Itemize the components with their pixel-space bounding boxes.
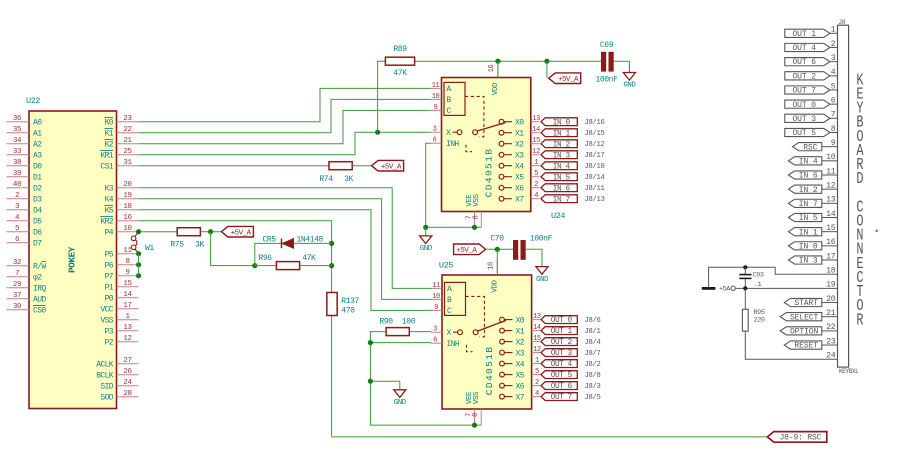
U22 pin 11 (P5)	[105, 247, 139, 259]
U25 pin 2 (X6)	[500, 379, 541, 391]
junction R75/+5V_A	[208, 229, 213, 234]
wire U24 VEE drop	[474, 226, 476, 228]
svg-text:J8/3: J8/3	[585, 383, 601, 391]
svg-text:P3: P3	[105, 328, 114, 337]
svg-text:K1: K1	[105, 130, 114, 139]
svg-text:470: 470	[341, 306, 355, 315]
svg-text:16: 16	[487, 262, 495, 270]
svg-text:RESET: RESET	[794, 342, 818, 351]
U24 pin 9 (C)	[431, 104, 442, 112]
svg-text:SELECT: SELECT	[790, 313, 819, 322]
connector J8 pin 20 (START)	[784, 295, 837, 308]
svg-text:GND: GND	[536, 276, 549, 284]
svg-text:J8-9: RSC: J8-9: RSC	[780, 434, 822, 443]
svg-text:VDD: VDD	[492, 82, 500, 95]
svg-text:J8/17: J8/17	[585, 152, 605, 160]
net label flag J8-9: RSC	[767, 432, 827, 443]
svg-text:3K: 3K	[195, 240, 204, 249]
connector J8 pin 5 (OUT 7)	[785, 82, 838, 95]
svg-text:R89: R89	[393, 45, 407, 54]
svg-text:IN 0: IN 0	[799, 242, 818, 251]
svg-text:AUD: AUD	[33, 296, 46, 305]
wire net K1 from U22.K1 to U24.B	[139, 99, 431, 132]
svg-text:31: 31	[123, 159, 132, 167]
svg-text:1: 1	[535, 357, 539, 365]
U24 pin 13 (X0)	[499, 115, 540, 127]
U22 pin 36 (A0)	[7, 115, 43, 127]
svg-text:6: 6	[433, 137, 437, 145]
connector J8 pin 24	[826, 352, 837, 361]
U25 pin 16 (VDD)	[487, 259, 499, 293]
svg-text:KR1: KR1	[100, 152, 113, 161]
svg-text:C93: C93	[753, 271, 764, 279]
svg-text:X0: X0	[515, 119, 524, 128]
U22 pin 20 (K3)	[105, 181, 139, 193]
wire node to R96	[255, 265, 277, 267]
wire net K3 from U22.K3 to U25.A	[139, 188, 432, 289]
net label flag IN 6 at U24 X6	[541, 184, 577, 194]
connector J8 pin 8 (OUT 5)	[785, 125, 838, 138]
svg-text:GND: GND	[623, 82, 636, 90]
svg-text:J8/12: J8/12	[585, 141, 605, 149]
svg-text:K0: K0	[105, 119, 114, 128]
svg-text:D6: D6	[33, 229, 42, 238]
svg-text:R/W: R/W	[33, 263, 46, 272]
svg-text:J8/4: J8/4	[585, 339, 601, 347]
U22 pin 17 (VCC)	[100, 302, 138, 314]
wire node up to CR5	[255, 243, 282, 265]
wire R75 to +5V_A junction	[200, 231, 221, 233]
svg-text:X6: X6	[516, 382, 525, 391]
net label flag OUT 0 at U25 X0	[541, 316, 577, 326]
svg-text:9: 9	[434, 104, 438, 112]
svg-text:IN 5: IN 5	[799, 214, 818, 223]
svg-text:CD4051B: CD4051B	[484, 148, 495, 198]
svg-text:VSS: VSS	[473, 391, 481, 404]
junction KR2/CR5	[329, 241, 334, 246]
svg-text:X1: X1	[516, 327, 525, 336]
junction node CR5-anode/R96	[252, 263, 257, 268]
svg-text:X2: X2	[516, 338, 525, 347]
U24 internal dashed select lines	[465, 96, 484, 151]
wire U25 INH stub	[370, 342, 431, 344]
connector J8 pin 12 (IN 2)	[788, 181, 837, 194]
U22 pin 5 (D6)	[7, 225, 43, 237]
wire P4 pin to R75	[139, 231, 178, 233]
svg-text:+5A: +5A	[719, 286, 731, 294]
U22 pin 34 (A2)	[7, 137, 43, 149]
U24 pin 14 (X1)	[499, 126, 540, 138]
wire R96 to KR2	[300, 265, 332, 267]
net label flag OUT 5 at U25 X5	[541, 371, 577, 381]
U22 pin 28 (SOD)	[100, 390, 138, 402]
svg-text:C70: C70	[490, 235, 504, 244]
svg-text:X7: X7	[516, 393, 525, 402]
U22 pin 29 (IRQ)	[7, 281, 47, 293]
svg-text:16: 16	[123, 214, 132, 222]
capacitor C70 100nF	[490, 235, 552, 260]
U22 pin 19 (K4)	[105, 192, 139, 204]
U25 pin 7 (VEE)	[466, 391, 475, 425]
svg-text:OUT 6: OUT 6	[792, 58, 816, 67]
svg-text:X4: X4	[515, 163, 524, 172]
net name text J8/11	[585, 185, 605, 193]
U22 pin 23 (K0)	[105, 115, 139, 127]
svg-text:CS1: CS1	[100, 163, 113, 172]
U22 pin 7 (PHI2)	[7, 270, 43, 282]
svg-text:2: 2	[15, 192, 19, 200]
svg-text:GND: GND	[420, 245, 433, 253]
U24 pin 1 (X4)	[499, 159, 539, 171]
svg-text:IN 2: IN 2	[799, 186, 818, 195]
svg-text:J8/10: J8/10	[585, 163, 605, 171]
power stub +5A	[719, 286, 735, 294]
svg-text:VSS: VSS	[473, 193, 481, 206]
svg-text:IN 7: IN 7	[799, 200, 818, 209]
svg-text:W1: W1	[145, 244, 154, 253]
svg-text:P0: P0	[105, 295, 114, 304]
junction P4/W1	[136, 229, 141, 234]
junction U24 VDD	[495, 59, 500, 64]
resistor R137 470	[327, 293, 360, 316]
net label flag IN 2 at U24 X2	[541, 140, 577, 150]
net name text J8/10	[585, 163, 605, 171]
svg-text:36: 36	[13, 115, 22, 123]
connector J8 pin 3 (OUT 6)	[785, 54, 838, 67]
svg-text:26: 26	[123, 368, 132, 376]
connector J8 pin 14 (IN 5)	[788, 210, 837, 223]
svg-text:J8/2: J8/2	[585, 361, 601, 369]
wire R74 to +5V_A	[352, 165, 371, 167]
U25 pin 8 (VSS)	[472, 391, 481, 425]
svg-text:J8/8: J8/8	[585, 372, 601, 380]
svg-text:2: 2	[534, 181, 538, 189]
connector J8 pin 4 (OUT 2)	[785, 68, 838, 81]
U22 pin 33 (A3)	[7, 148, 43, 160]
svg-text:100nF: 100nF	[530, 235, 553, 244]
net name text J8/15	[585, 130, 605, 138]
junction +5V_A flag tap	[544, 59, 549, 64]
svg-text:START: START	[794, 299, 818, 308]
resistor R89 47K	[385, 45, 414, 78]
svg-text:R74: R74	[319, 175, 333, 184]
svg-text:1: 1	[534, 159, 538, 167]
net name text J8/13	[585, 196, 605, 204]
svg-text:K4: K4	[105, 196, 114, 205]
svg-text:CR5: CR5	[263, 235, 277, 244]
svg-text:U22: U22	[26, 96, 40, 106]
U25 pin 14 (X1)	[500, 324, 541, 336]
connector J8 pin 18	[826, 266, 837, 275]
svg-text:J8: J8	[838, 19, 846, 26]
IC U22 vertical name POKEY	[67, 246, 78, 273]
svg-text:J8/16: J8/16	[585, 119, 605, 127]
junction R90/INH	[368, 340, 373, 345]
U25 pin 10 (B)	[431, 293, 442, 301]
svg-text:33: 33	[13, 148, 22, 156]
svg-text:10: 10	[432, 93, 440, 101]
net label flag IN 4 at U24 X4	[541, 162, 577, 172]
svg-text:X3: X3	[515, 152, 524, 161]
U24 pin 8 (VSS)	[472, 193, 481, 227]
svg-text:21: 21	[123, 137, 132, 145]
U25 pin 15 (X2)	[500, 335, 541, 347]
svg-text:220: 220	[754, 316, 765, 324]
svg-text:47K: 47K	[302, 254, 316, 263]
svg-text:IN 4: IN 4	[553, 163, 571, 171]
svg-text:OUT 4: OUT 4	[792, 44, 816, 53]
net name text J8/4	[585, 339, 601, 347]
wire R95 to connector pin 24	[745, 331, 837, 359]
svg-text:35: 35	[13, 126, 22, 134]
junction C93 top	[743, 265, 747, 269]
svg-text:11: 11	[432, 82, 440, 90]
net name text J8/7	[585, 350, 601, 358]
svg-text:X5: X5	[515, 174, 524, 183]
U22 pin 40 (D2)	[7, 181, 43, 193]
svg-text:X0: X0	[516, 316, 525, 325]
net label flag IN 7 at U24 X7	[541, 195, 577, 205]
svg-text:OUT 7: OUT 7	[551, 394, 573, 402]
connector J8 pin 21 (SELECT)	[780, 309, 837, 322]
wire net KR2 from U22.KR2 down to RSC line	[139, 221, 332, 437]
svg-text:+5V_A: +5V_A	[456, 247, 477, 255]
U22 pin 16 (KR2)	[100, 214, 138, 226]
svg-text:IN 0: IN 0	[553, 119, 571, 127]
junction U25 VEE / ground rail	[472, 423, 477, 428]
U24 pin 3 (X common) with switch graphic	[431, 123, 506, 139]
U24 pin 7 (VEE)	[466, 193, 475, 227]
svg-text:3: 3	[433, 126, 437, 134]
U22 pin 15 (P1)	[105, 280, 139, 292]
junction +5A / C93 / R95	[743, 286, 747, 290]
svg-text:BCLK: BCLK	[96, 372, 114, 381]
svg-text:IN 3: IN 3	[553, 152, 571, 160]
U24 pin 16 (VDD)	[488, 61, 500, 95]
svg-text:32: 32	[13, 259, 21, 267]
net name text J8/12	[585, 141, 605, 149]
net name text J8/1	[585, 328, 601, 336]
svg-text:OUT 2: OUT 2	[792, 72, 816, 81]
wire U25 VEE drop	[474, 424, 476, 426]
svg-text:18: 18	[123, 203, 131, 211]
U25 select inputs box A B C	[445, 282, 466, 316]
svg-text:KR2: KR2	[100, 218, 113, 227]
wire R90 left to INH and ground rail	[370, 332, 481, 426]
svg-text:INH: INH	[447, 340, 460, 349]
svg-text:4: 4	[534, 192, 538, 200]
ground symbol under U24	[420, 227, 433, 253]
svg-text:IN 5: IN 5	[553, 174, 571, 182]
svg-text:38: 38	[13, 159, 21, 167]
svg-text:P6: P6	[105, 262, 114, 271]
svg-text:OUT 2: OUT 2	[551, 339, 573, 347]
svg-text:11: 11	[432, 282, 440, 290]
capacitor C69 100nF	[595, 41, 618, 84]
junction GND tap	[368, 379, 373, 384]
U22 pin 25 (KR1)	[100, 148, 138, 160]
U22 pin 30 (CS0)	[7, 303, 47, 315]
U24 pin 4 (X7)	[499, 192, 539, 204]
svg-text:J8/11: J8/11	[585, 185, 605, 193]
svg-text:OUT 0: OUT 0	[792, 101, 816, 110]
svg-text:37: 37	[13, 292, 21, 300]
svg-text:17: 17	[123, 302, 131, 310]
svg-text:IN 6: IN 6	[553, 185, 571, 193]
net label flag OUT 2 at U25 X2	[541, 338, 577, 348]
U22 pin 4 (D5)	[7, 214, 43, 226]
U25 pin 9 (C)	[431, 304, 442, 312]
svg-text:J8/15: J8/15	[585, 130, 605, 138]
svg-text:9: 9	[434, 304, 438, 312]
svg-text:U25: U25	[439, 261, 453, 271]
U22 pin 1 (VSS)	[100, 313, 138, 325]
svg-text:ACLK: ACLK	[96, 361, 114, 370]
svg-text:RSC: RSC	[803, 143, 817, 152]
svg-text:J8/6: J8/6	[585, 317, 601, 325]
connector J8 pin 19	[826, 281, 837, 290]
svg-text:100: 100	[402, 317, 416, 326]
svg-text:U24: U24	[551, 211, 565, 221]
svg-text:25: 25	[123, 148, 132, 156]
svg-text:IN 1: IN 1	[799, 228, 818, 237]
junction P6 tie	[136, 262, 141, 267]
svg-text:A0: A0	[33, 119, 42, 128]
U25 pin 13 (X0)	[500, 313, 541, 325]
net name text J8/8	[585, 372, 601, 380]
svg-text:20: 20	[123, 181, 132, 189]
svg-text:K2: K2	[105, 141, 114, 150]
svg-text:IN 6: IN 6	[799, 172, 818, 181]
U25 pin 11 (A)	[431, 282, 442, 290]
connector J8 pin 2 (OUT 4)	[785, 40, 838, 53]
junction U25 VDD tap	[495, 247, 500, 252]
svg-text:OUT 1: OUT 1	[551, 328, 573, 336]
wire net K5 from U22.K5 to U25.C	[139, 210, 432, 311]
svg-text:10: 10	[432, 293, 440, 301]
connector J8 pin 13 (IN 7)	[788, 196, 837, 209]
svg-text:OPTION: OPTION	[790, 327, 819, 336]
wire C70 to GND	[525, 249, 542, 258]
svg-text:SID: SID	[100, 383, 113, 392]
svg-text:12: 12	[533, 346, 541, 354]
U22 pin 26 (BCLK)	[96, 368, 138, 380]
IC U25 CD4051B body	[439, 261, 532, 410]
resistor R90 100	[379, 317, 415, 335]
U22 pin 18 (K5)	[105, 203, 139, 215]
svg-text:15: 15	[532, 137, 540, 145]
wire net KR1 from U22.KR1 to U24.X	[139, 132, 431, 155]
ground bar symbol	[702, 287, 716, 290]
svg-text:14: 14	[532, 126, 540, 134]
svg-text:R96: R96	[259, 254, 273, 263]
svg-text:3K: 3K	[344, 175, 353, 184]
U22 pin 37 (AUD)	[7, 292, 47, 304]
svg-text:R75: R75	[170, 240, 184, 249]
svg-text:15: 15	[533, 335, 541, 343]
wire +5V_A junction down to CR5/R96 node	[211, 232, 255, 266]
svg-text:13: 13	[533, 313, 541, 321]
U22 pin 3 (D4)	[7, 203, 43, 215]
svg-text:INH: INH	[446, 140, 459, 149]
net name text J8/5	[585, 394, 601, 402]
svg-text:KEYBXL: KEYBXL	[839, 368, 859, 375]
svg-text:13: 13	[123, 324, 132, 332]
U22 pin 2 (D3)	[7, 192, 43, 204]
U22 pin 38 (D0)	[7, 159, 43, 171]
U22 pin 6 (D7)	[7, 236, 43, 248]
svg-text:16: 16	[488, 65, 496, 73]
connector J8 pin 15 (IN 1)	[788, 224, 837, 237]
svg-text:X1: X1	[515, 130, 524, 139]
svg-text:CD4051B: CD4051B	[484, 346, 495, 396]
svg-text:47K: 47K	[393, 69, 407, 78]
wire +5V_A rail to U24 VDD and C69	[378, 61, 602, 132]
net name text J8/2	[585, 361, 601, 369]
svg-text:IN 1: IN 1	[553, 130, 571, 138]
svg-text:X5: X5	[516, 371, 525, 380]
svg-text:OUT 3: OUT 3	[792, 115, 816, 124]
svg-text:φ2: φ2	[33, 274, 42, 283]
vertical text KEYBOARD CONNECTOR	[856, 72, 863, 331]
U22 pin 13 (P3)	[105, 324, 139, 336]
wire net K0 from U22.K0 to U24.A	[139, 88, 431, 121]
wire connector pin 19 to +5A node	[736, 287, 838, 289]
net label flag OUT 1 at U25 X1	[541, 327, 577, 337]
IC U22 POKEY body	[26, 96, 117, 408]
svg-text:A1: A1	[33, 130, 42, 139]
svg-text:D5: D5	[33, 218, 42, 227]
svg-text:100nF: 100nF	[595, 76, 618, 85]
U22 pin 9 (P7)	[105, 269, 139, 281]
net label flag OUT 4 at U25 X4	[541, 360, 577, 370]
U24 pin 2 (X6)	[499, 181, 539, 193]
svg-text:OUT 6: OUT 6	[551, 383, 573, 391]
wire +5V_A to U25 VDD and C70	[486, 248, 514, 250]
svg-text:A2: A2	[33, 141, 42, 150]
svg-text:J8/1: J8/1	[585, 328, 601, 336]
svg-text:X2: X2	[515, 141, 524, 150]
resistor R75 3K	[170, 228, 204, 250]
U22 pin 14 (P0)	[105, 291, 139, 303]
U24 vertical label CD4051B	[484, 148, 495, 198]
svg-text:14: 14	[533, 324, 541, 332]
power flag +5V_A at U25 VDD	[454, 244, 486, 255]
U25 internal dashed select lines	[466, 296, 485, 351]
connector J8 pin 1 (OUT 1)	[785, 26, 838, 39]
wire R90 to U25 X	[409, 331, 431, 333]
svg-text:5: 5	[534, 170, 538, 178]
svg-text:VDD: VDD	[491, 279, 499, 292]
svg-text:P5: P5	[105, 251, 114, 260]
svg-text:27: 27	[123, 357, 131, 365]
svg-text:19: 19	[123, 192, 131, 200]
junction P7 tie	[136, 273, 141, 278]
ground symbol at C70	[536, 258, 549, 284]
svg-text:2: 2	[535, 379, 539, 387]
wire U24 VDD stub from rail	[497, 61, 499, 77]
U22 pin 8 (P6)	[105, 258, 139, 270]
wire U25 VDD stub	[496, 249, 498, 275]
svg-text:OUT 1: OUT 1	[792, 30, 816, 39]
U24 pin 12 (X3)	[499, 148, 540, 160]
net name text J8/3	[585, 383, 601, 391]
U25 pin 4 (X7)	[500, 390, 541, 402]
U22 pin 22 (K1)	[105, 126, 139, 138]
svg-text:.1: .1	[754, 281, 762, 289]
svg-text:IN 3: IN 3	[799, 257, 818, 266]
diode CR5 1N4148	[263, 235, 324, 248]
